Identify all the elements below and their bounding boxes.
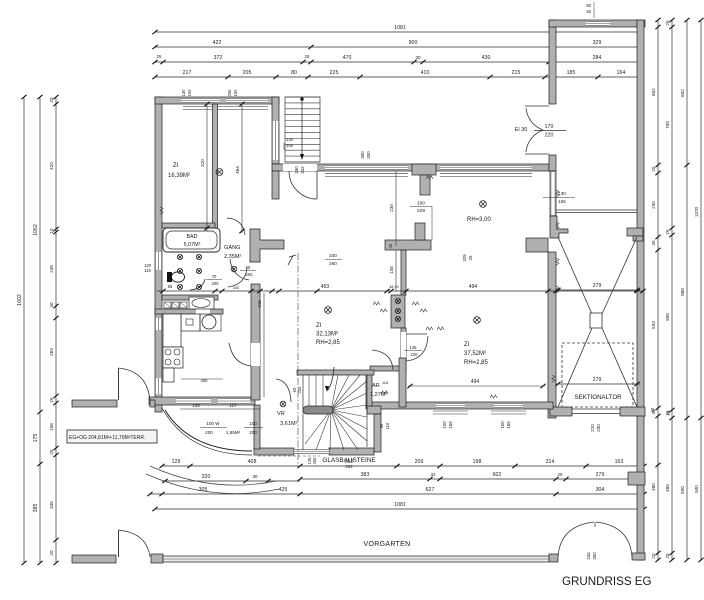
window living south 1 [436,403,465,408]
svg-text:30: 30 [252,474,258,479]
svg-text:200: 200 [596,424,601,432]
svg-text:150: 150 [294,166,299,174]
svg-text:20: 20 [651,553,656,559]
svg-text:602: 602 [680,89,685,97]
svg-text:250: 250 [227,89,232,97]
svg-text:AR: AR [372,383,380,389]
svg-text:248: 248 [49,265,54,273]
right dimension line 602 868 500 [686,20,688,560]
bath ceiling lights [177,254,182,259]
bottom dimension row 320 30 383 32 602 25 279 [162,480,300,482]
dimension row 372 470 30 430 284 [155,61,641,63]
svg-text:25: 25 [49,449,54,455]
svg-text:198: 198 [473,459,482,465]
bottom dimension row 305 425 627 304 [150,493,644,495]
west wall of vestibule [254,405,260,449]
svg-text:602: 602 [493,472,502,478]
dimension row 1081 top [155,31,641,33]
svg-text:279: 279 [593,377,602,383]
window in left wall kitchen lower [155,378,162,394]
dim 494 in ZI 37 [408,385,545,387]
svg-text:1081: 1081 [394,502,406,508]
stair centerline with start dot [301,99,303,158]
svg-text:420: 420 [200,159,205,167]
svg-text:500: 500 [694,485,699,493]
section line vertical dash-dot [297,253,299,468]
wall right side of left wing [272,97,279,164]
right wall pier at fence [628,472,645,485]
dim 50 40 extension top [593,2,595,18]
front garden gate left [118,530,120,557]
svg-text:164: 164 [617,70,626,76]
dim 340 260 [325,259,342,261]
svg-text:279: 279 [596,472,605,478]
garage X brace upper [558,237,637,407]
interior dim 230 [395,171,397,246]
window in extension north wall [586,21,610,26]
garage door dashed outline [562,343,633,407]
svg-text:130: 130 [181,89,186,97]
svg-text:RH=2,85: RH=2,85 [464,360,489,366]
svg-text:430: 430 [482,55,491,61]
svg-text:25: 25 [666,410,671,415]
svg-text:80: 80 [291,70,297,76]
svg-text:1,85M²: 1,85M² [226,430,241,435]
bottom dimension row 129 408 262 209 198 314 163 [162,465,644,467]
label EG+OG area box [67,430,157,443]
washer symbols [164,302,171,308]
window living north 2 [440,165,532,170]
svg-text:225: 225 [330,70,339,76]
svg-text:25: 25 [305,54,310,59]
svg-text:217: 217 [183,70,192,76]
svg-text:VR: VR [277,411,285,417]
svg-text:37,52M²: 37,52M² [464,351,486,357]
terrace door left leaf and arc [118,368,120,400]
svg-text:5,07M²: 5,07M² [184,242,201,248]
svg-text:408: 408 [248,459,257,465]
window sills living north [325,173,408,175]
svg-text:GRUNDRISS EG: GRUNDRISS EG [562,575,652,588]
svg-text:32: 32 [430,472,436,477]
interior dim 464 [241,104,243,233]
svg-text:130: 130 [286,137,294,142]
door dim 70 200 [206,279,222,281]
svg-text:415: 415 [257,300,262,308]
svg-text:155: 155 [558,199,566,204]
svg-text:100: 100 [442,421,447,429]
svg-text:410: 410 [421,70,430,76]
svg-text:320: 320 [202,474,211,480]
svg-text:48 10: 48 10 [389,285,399,289]
door corridor to GANG [227,218,245,235]
svg-text:163: 163 [615,459,624,465]
svg-text:155: 155 [448,421,453,429]
svg-text:900: 900 [409,40,418,46]
svg-text:170: 170 [545,124,554,130]
svg-text:25: 25 [49,97,54,103]
gate post right of fence [549,554,558,562]
svg-text:345: 345 [49,501,54,509]
dim 117 135 below kitchen [180,408,260,410]
pier column top wall [412,164,436,175]
svg-text:262: 262 [345,464,353,469]
window top wall right [226,98,268,103]
svg-text:32,13M²: 32,13M² [316,332,338,338]
svg-text:314: 314 [546,459,555,465]
exterior wall left [155,97,162,412]
AR east wall [399,358,406,407]
kitchen round sink [202,315,216,329]
svg-text:VORGARTEN: VORGARTEN [364,541,411,548]
svg-text:200: 200 [592,552,597,560]
garage west pier [550,216,568,238]
svg-text:385: 385 [33,504,39,513]
svg-text:305: 305 [199,487,208,493]
exterior wall right [637,20,644,418]
kitchen counter left [163,314,181,347]
svg-text:284: 284 [593,55,602,61]
svg-text:480: 480 [665,484,670,492]
svg-text:700: 700 [665,121,670,129]
bathtub [163,228,220,252]
svg-text:100 W: 100 W [206,421,220,426]
dimension row 422 900 329 [155,46,641,48]
svg-text:118: 118 [382,381,388,385]
garage east pier [627,228,643,236]
svg-text:25: 25 [651,166,656,172]
curved glass block bay wall [165,410,252,451]
svg-text:372: 372 [214,55,223,61]
svg-text:40: 40 [650,407,655,412]
svg-text:185: 185 [567,70,576,76]
svg-text:450: 450 [312,457,317,465]
svg-text:25: 25 [665,229,670,235]
door GANG to bath [228,268,247,287]
interior wall above bath [162,223,215,228]
svg-text:500: 500 [680,486,685,494]
corridor west wall lower [272,171,279,199]
svg-text:230: 230 [651,201,656,209]
svg-text:16,39M²: 16,39M² [168,173,190,179]
winder stair treads [303,375,367,450]
svg-text:325: 325 [462,254,467,262]
svg-text:263: 263 [49,348,54,356]
svg-text:129: 129 [172,459,181,465]
duct shaft [391,295,405,328]
door EI30 double [525,105,549,107]
svg-text:EI 30: EI 30 [515,127,528,133]
svg-text:25: 25 [665,20,670,26]
kitchen stove with burners [163,347,183,368]
bottom dimension row 1081 [155,508,644,510]
front garden fence [163,556,549,562]
svg-text:200: 200 [246,272,254,277]
terrace wall stub at building [150,400,155,407]
terrace step arcs [150,466,276,485]
double gate right [558,522,594,557]
window sill below top wall [183,106,268,108]
garage dim 279 upper [556,289,640,291]
door vestibule entry [276,379,291,402]
svg-text:150: 150 [286,143,294,148]
ceiling light symbols [216,169,223,176]
svg-text:135: 135 [192,403,200,408]
svg-text:494: 494 [471,379,480,385]
interior dim 415 [263,293,265,397]
svg-text:ZI: ZI [173,163,179,169]
north wall of rear extension [549,20,645,27]
svg-text:SEKTIONALTOR: SEKTIONALTOR [574,394,622,401]
kitchen north wall [155,309,223,314]
garage dim 279 lower [556,383,640,385]
svg-text:175: 175 [33,434,39,443]
svg-text:1062: 1062 [33,224,39,236]
door to AR [372,350,393,370]
svg-text:602: 602 [651,88,656,96]
svg-text:GLASBAUSTEINE: GLASBAUSTEINE [322,457,375,464]
svg-text:25: 25 [665,553,670,559]
svg-text:215: 215 [512,70,521,76]
winder stair walk line with arrow [328,367,334,390]
wall right of living room upper with EI30 opening [549,20,556,104]
interior dimension chain horizontal [157,290,643,292]
svg-text:100: 100 [233,286,239,290]
svg-text:100: 100 [500,421,505,429]
exterior wall top of left wing [155,97,279,104]
window dim 100 229 at pier [410,206,432,208]
svg-text:1081: 1081 [394,25,406,31]
svg-text:329: 329 [593,40,602,46]
svg-text:900: 900 [665,313,670,321]
south wall of living rooms [366,402,553,409]
svg-text:40: 40 [388,243,393,248]
garage north edge lines [556,209,637,211]
svg-text:RH=2,85: RH=2,85 [316,340,341,346]
partition wall below T [401,250,406,295]
svg-text:200: 200 [249,430,257,435]
exterior wall right lower [637,412,644,560]
svg-text:242: 242 [300,166,305,174]
east wall of living room / garage west wall [550,171,556,217]
svg-text:26: 26 [468,255,473,260]
window dim 130 155 right [543,197,575,199]
svg-text:25: 25 [157,54,162,59]
terrace boundary wall left [72,400,117,407]
svg-text:533: 533 [651,321,656,329]
interior dim 145 [395,250,397,291]
svg-text:155: 155 [506,421,511,429]
svg-text:229: 229 [417,208,425,214]
right dimension line 602 230 40 533 40 480 20 [657,20,659,560]
south wall of kitchen [149,397,255,405]
svg-text:20: 20 [49,550,54,556]
svg-text:150: 150 [187,89,192,97]
wall jog south of AR [367,406,381,414]
front garden wall west [72,555,116,563]
svg-text:1370: 1370 [694,206,699,217]
insulation squiggles [556,190,559,197]
winder stair hub tread [303,406,333,414]
svg-text:117: 117 [230,403,238,408]
svg-text:40: 40 [586,9,591,14]
svg-text:245: 245 [586,552,591,560]
svg-text:200: 200 [212,281,220,286]
door bath WC [190,279,205,290]
svg-text:300: 300 [201,378,209,383]
svg-text:260: 260 [329,261,337,266]
svg-text:230: 230 [389,204,394,212]
kitchen counter edge line [181,378,223,380]
svg-text:RH=3,00: RH=3,00 [467,217,492,223]
svg-text:300: 300 [360,151,365,159]
glass block entry panel [294,449,329,454]
svg-text:383: 383 [361,472,370,478]
svg-text:10: 10 [49,228,54,234]
svg-text:40: 40 [49,302,54,308]
left dimension line 1062 175 385 [39,97,41,563]
svg-text:494: 494 [469,284,478,290]
svg-text:420: 420 [49,162,54,170]
window living north 1 [325,165,408,170]
south wall of stair block [254,448,294,455]
svg-text:125: 125 [410,345,418,350]
svg-text:304: 304 [596,487,605,493]
svg-text:205: 205 [243,70,252,76]
gate post [151,554,163,563]
door GANG to kitchen [230,259,249,280]
labels 100 200 at vestibule [200,427,227,429]
window in corridor east wall [272,121,279,160]
vanity basin [189,297,214,309]
kitchen lower cabinet [163,368,174,382]
svg-text:453: 453 [321,284,330,290]
svg-text:85: 85 [168,284,173,289]
wall jog between living and garage [526,238,548,252]
svg-text:279: 279 [593,283,602,289]
svg-text:150: 150 [233,89,238,97]
kitchen fridge unit [181,314,200,331]
window top wall left [181,98,220,103]
window in left wall kitchen upper [155,318,162,330]
svg-text:110: 110 [144,268,151,273]
left dimension line 1602 [23,97,25,563]
window sills living south [433,410,468,412]
svg-text:100: 100 [249,421,257,426]
staircase upper flight [285,97,320,162]
garage center block [590,313,602,328]
stair-AR divider wall [366,374,372,406]
svg-text:340: 340 [329,253,337,258]
svg-text:627: 627 [426,487,435,493]
door to ZI 37,52 [406,336,428,361]
winder stair enclosure landing bar [297,370,374,375]
window 120x110 in left wall [155,252,162,270]
svg-text:220: 220 [590,424,595,432]
toilet [167,272,172,282]
svg-text:470: 470 [343,55,352,61]
svg-text:25: 25 [558,472,563,477]
svg-text:25: 25 [49,397,54,403]
svg-text:464: 464 [235,166,240,174]
svg-text:422: 422 [213,40,222,46]
svg-text:220: 220 [411,352,419,357]
dimension row 217 205 80 225 410 215 185 164 [155,76,641,78]
lintel zigzag symbol [288,255,296,265]
svg-text:ZI: ZI [464,342,470,348]
svg-text:1602: 1602 [17,294,23,306]
door dim 65 200 [240,270,256,272]
svg-text:EG+OG 204,81M²+11,70M²TERR.: EG+OG 204,81M²+11,70M²TERR. [69,435,145,441]
left dimension line segments 25 420 10 248 40 263 25 158 25 345 20 [55,97,57,563]
svg-text:ZI: ZI [316,323,322,329]
svg-text:158: 158 [49,423,54,431]
svg-text:70: 70 [212,274,217,279]
partition wall with door to ZI 37 [401,328,406,370]
svg-text:3,61M²: 3,61M² [280,421,298,427]
door kitchen to living [229,343,251,366]
kitchen east wall [251,284,260,400]
partition T-wall between living rooms [385,240,431,250]
svg-text:30: 30 [415,55,421,60]
garage south threshold left [550,407,572,416]
interior wall between ZI and corridor [213,104,218,233]
svg-text:40: 40 [651,240,656,246]
svg-text:50: 50 [586,3,591,8]
svg-text:145: 145 [389,266,394,274]
svg-text:GANG: GANG [224,245,240,251]
svg-text:110: 110 [385,422,390,429]
garage south threshold right [620,407,645,416]
right dimension line 1370 500 [700,20,702,560]
svg-text:200: 200 [205,430,213,435]
AR north wall [370,366,406,371]
door living room north [316,171,318,199]
window living south 2 [494,403,523,408]
svg-text:2,35M²: 2,35M² [224,254,242,260]
right wall foot [632,553,645,560]
interior dim 420 in ZI room [206,104,208,231]
svg-text:BAD: BAD [186,234,197,240]
bath south wall [162,295,218,300]
top wall of living area [272,164,549,171]
svg-text:868: 868 [680,288,685,296]
right dimension line 25 700 25 900 480 25 [671,20,673,560]
stepped wall NE of GANG [250,229,284,262]
svg-text:200: 200 [366,151,371,159]
svg-text:220: 220 [545,133,554,139]
svg-text:90: 90 [379,423,384,428]
svg-text:1,27M²: 1,27M² [370,392,388,398]
svg-text:209: 209 [415,459,424,465]
svg-text:425: 425 [279,487,288,493]
svg-text:100: 100 [417,201,425,207]
svg-text:480: 480 [651,483,656,491]
